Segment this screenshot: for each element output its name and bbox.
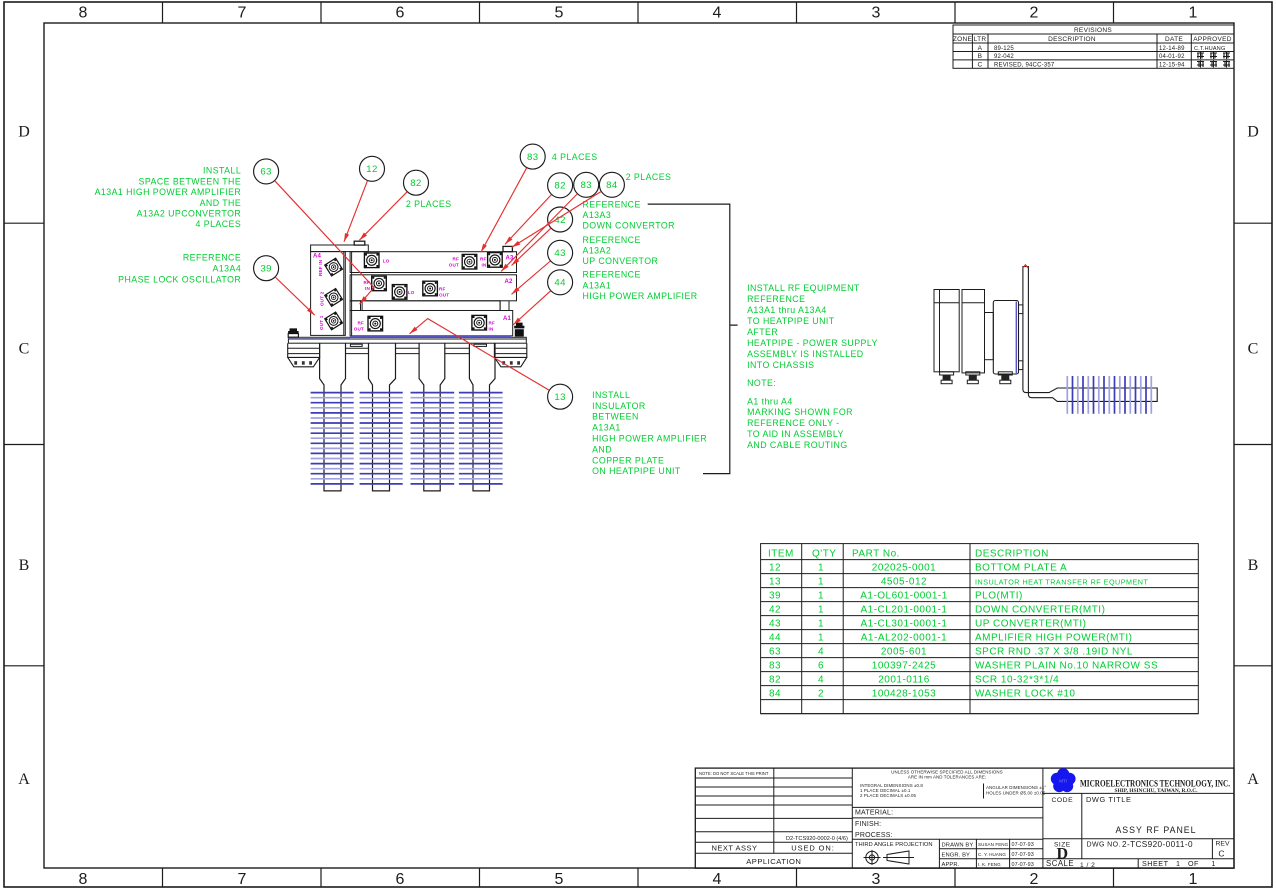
svg-text:43: 43	[554, 248, 565, 259]
green notes right of balloons	[406, 152, 878, 476]
svg-text:100397-2425: 100397-2425	[872, 660, 936, 671]
svg-text:A1-OL601-0001-1: A1-OL601-0001-1	[860, 590, 948, 601]
svg-text:82: 82	[554, 181, 565, 192]
svg-text:D2-TCS920-0002-0 (4/6): D2-TCS920-0002-0 (4/6)	[786, 836, 848, 842]
svg-text:A13A1 thru A13A4: A13A1 thru A13A4	[747, 305, 827, 315]
svg-text:C: C	[1218, 849, 1224, 859]
svg-text:82: 82	[410, 178, 421, 189]
svg-text:ITEM: ITEM	[768, 548, 794, 559]
title block left section text	[699, 771, 848, 866]
svg-text:INSTALL: INSTALL	[592, 390, 630, 400]
svg-text:C.T.HUANG: C.T.HUANG	[1194, 46, 1225, 52]
svg-text:A: A	[18, 771, 30, 788]
svg-text:MARKING SHOWN FOR: MARKING SHOWN FOR	[747, 407, 853, 417]
parts list table text	[768, 548, 1158, 699]
svg-text:1: 1	[1189, 5, 1198, 22]
svg-text:2 PLACES: 2 PLACES	[406, 199, 452, 209]
svg-text:1 / 2: 1 / 2	[1080, 862, 1095, 869]
parts list table frame	[761, 544, 1199, 714]
svg-text:APPROVED: APPROVED	[1193, 36, 1232, 43]
svg-text:A: A	[1247, 771, 1259, 788]
module A4 top lip plate	[311, 245, 369, 252]
svg-text:12-15-94: 12-15-94	[1159, 63, 1185, 69]
RF IN connector A1	[472, 315, 487, 330]
svg-text:WASHER PLAIN No.10 NARROW SS: WASHER PLAIN No.10 NARROW SS	[975, 660, 1158, 671]
svg-text:INSTALL: INSTALL	[203, 166, 241, 176]
screw tab on lip	[354, 241, 365, 245]
balloon 13	[548, 384, 573, 409]
svg-text:REFERENCE: REFERENCE	[583, 235, 641, 245]
svg-text:UP CONVERTOR: UP CONVERTOR	[583, 256, 659, 266]
revisions table frame	[953, 25, 1234, 68]
svg-text:100428-1053: 100428-1053	[872, 688, 936, 699]
RF OUT connector A2	[423, 281, 438, 296]
right mounting bracket	[494, 343, 526, 367]
svg-text:ARE IN mm AND TOLERANCES ARE:: ARE IN mm AND TOLERANCES ARE:	[908, 775, 986, 780]
svg-text:ASSY RF PANEL: ASSY RF PANEL	[1115, 825, 1196, 835]
svg-text:HOLES UNDER Ø5.00 ±0.05: HOLES UNDER Ø5.00 ±0.05	[986, 790, 1046, 795]
RF OUT connector A3	[462, 254, 477, 269]
svg-text:A13A1 HIGH POWER AMPLIFIER: A13A1 HIGH POWER AMPLIFIER	[95, 187, 242, 197]
leader line 44	[513, 291, 551, 325]
svg-text:6: 6	[818, 660, 824, 671]
svg-text:2 PLACE DECIMALS ±0.05: 2 PLACE DECIMALS ±0.05	[860, 793, 917, 798]
svg-text:5: 5	[555, 871, 564, 888]
balloon 82	[404, 170, 429, 195]
svg-text:SCR 10-32*3*1/4: SCR 10-32*3*1/4	[975, 674, 1059, 685]
svg-text:63: 63	[769, 646, 781, 657]
svg-text:12: 12	[769, 562, 781, 573]
blue line under base plate left part	[288, 337, 350, 339]
svg-text:IN: IN	[482, 262, 487, 267]
svg-text:REV: REV	[1216, 841, 1230, 848]
title block outline	[695, 768, 1234, 868]
leader line 63	[275, 181, 374, 304]
OUT 1 connector A4	[325, 312, 343, 330]
tolerance note text	[860, 769, 1046, 798]
balloon 82	[548, 173, 573, 198]
leader line 84 row	[512, 192, 601, 248]
balloon 63	[254, 159, 279, 184]
magenta labels	[313, 254, 514, 332]
svg-text:RF: RF	[480, 256, 487, 261]
svg-text:A4: A4	[313, 254, 322, 260]
material finish process labels	[855, 810, 893, 840]
svg-text:44: 44	[554, 278, 566, 289]
svg-text:A13A3: A13A3	[583, 210, 612, 220]
svg-text:4: 4	[713, 871, 722, 888]
screw tab top right of A3	[503, 246, 512, 251]
blue line inside box 3	[1015, 302, 1017, 374]
svg-text:202025-0001: 202025-0001	[872, 562, 936, 573]
svg-text:1: 1	[818, 618, 824, 629]
svg-text:84: 84	[769, 688, 781, 699]
svg-text:89-125: 89-125	[994, 46, 1014, 52]
svg-text:THIRD ANGLE PROJECTION: THIRD ANGLE PROJECTION	[855, 842, 933, 848]
svg-text:A1: A1	[503, 316, 512, 322]
svg-text:PROCESS:: PROCESS:	[855, 832, 893, 839]
leader line 82 row	[505, 195, 551, 245]
svg-text:OUT: OUT	[354, 326, 364, 331]
balloon 83	[574, 172, 599, 197]
svg-text:D: D	[18, 124, 30, 141]
svg-text:7: 7	[238, 5, 247, 22]
svg-text:SPACE BETWEEN THE: SPACE BETWEEN THE	[139, 176, 242, 186]
svg-text:07-07-93: 07-07-93	[1012, 852, 1034, 858]
module A3 down converter box	[350, 252, 516, 273]
small tab under plate	[350, 344, 362, 346]
svg-text:ENGR. BY: ENGR. BY	[942, 852, 971, 858]
svg-text:B: B	[978, 53, 983, 60]
svg-text:REFERENCE: REFERENCE	[747, 294, 805, 304]
svg-text:IN: IN	[365, 286, 370, 291]
svg-text:A3: A3	[506, 256, 515, 262]
svg-text:44: 44	[769, 632, 781, 643]
svg-text:C: C	[19, 340, 30, 357]
svg-text:TO HEATPIPE UNIT: TO HEATPIPE UNIT	[747, 316, 835, 326]
svg-text:B: B	[19, 557, 30, 574]
svg-text:13: 13	[769, 576, 781, 587]
svg-text:I. K. FENG: I. K. FENG	[978, 862, 1001, 867]
svg-text:4 PLACES: 4 PLACES	[196, 219, 242, 229]
svg-text:FINISH:: FINISH:	[855, 821, 881, 828]
svg-text:43: 43	[769, 618, 781, 629]
LO connector A3	[364, 253, 379, 268]
svg-text:AND THE: AND THE	[200, 198, 242, 208]
svg-text:4: 4	[818, 674, 824, 685]
svg-text:BETWEEN: BETWEEN	[592, 412, 639, 422]
svg-text:RF: RF	[439, 287, 446, 292]
drawn by table text	[942, 842, 1034, 868]
svg-text:UNLESS OTHERWISE SPECIFIED ALL: UNLESS OTHERWISE SPECIFIED ALL DIMENSION…	[891, 769, 1002, 774]
install space note	[95, 166, 242, 285]
rail lines between posts	[346, 347, 369, 349]
svg-text:APPLICATION: APPLICATION	[746, 857, 801, 866]
svg-text:8: 8	[79, 5, 88, 22]
svg-text:3: 3	[872, 871, 881, 888]
svg-text:MATERIAL:: MATERIAL:	[855, 810, 893, 817]
balloon 43	[548, 240, 573, 265]
svg-text:2001-0116: 2001-0116	[878, 674, 930, 685]
svg-text:SUSAN FENG: SUSAN FENG	[978, 842, 1009, 847]
svg-text:OUT 2: OUT 2	[320, 291, 325, 306]
svg-text:AFTER: AFTER	[747, 327, 778, 337]
svg-text:13: 13	[554, 392, 565, 403]
LO connector A2	[392, 285, 407, 300]
leader line 13	[410, 319, 550, 391]
RF IN connector A2	[372, 276, 387, 291]
svg-text:DOWN CONVERTER(MTI): DOWN CONVERTER(MTI)	[975, 604, 1105, 615]
svg-text:82: 82	[769, 674, 781, 685]
RF IN connector A3	[488, 253, 503, 268]
svg-text:1: 1	[818, 632, 824, 643]
svg-text:7: 7	[238, 871, 247, 888]
svg-text:LTR: LTR	[974, 36, 987, 43]
svg-text:ASSEMBLY IS INSTALLED: ASSEMBLY IS INSTALLED	[747, 349, 864, 359]
red mark at plate top	[1023, 265, 1029, 269]
svg-text:92-042: 92-042	[994, 54, 1014, 60]
svg-text:2005-601: 2005-601	[881, 646, 927, 657]
svg-text:DESCRIPTION: DESCRIPTION	[975, 548, 1049, 559]
svg-text:COPPER PLATE: COPPER PLATE	[592, 455, 664, 465]
svg-text:AMPLIFIER HIGH POWER(MTI): AMPLIFIER HIGH POWER(MTI)	[975, 632, 1133, 643]
svg-text:DESCRIPTION: DESCRIPTION	[1048, 36, 1096, 43]
svg-text:REFERENCE ONLY -: REFERENCE ONLY -	[747, 418, 839, 428]
svg-text:SHEET 1 OF 1: SHEET 1 OF 1	[1142, 859, 1216, 868]
svg-text:2-TCS920-0011-0: 2-TCS920-0011-0	[1122, 840, 1193, 849]
svg-text:83: 83	[580, 180, 591, 191]
side view module box 2	[962, 290, 985, 373]
left mounting bracket	[288, 343, 320, 367]
svg-text:PHASE LOCK OSCILLATOR: PHASE LOCK OSCILLATOR	[118, 274, 241, 284]
blue insulator line under A1	[350, 336, 511, 338]
black bracket polyline	[648, 204, 738, 474]
svg-text:LO: LO	[383, 259, 390, 264]
svg-text:A: A	[978, 45, 983, 52]
svg-text:12-14-89: 12-14-89	[1159, 46, 1185, 52]
svg-text:REF IN: REF IN	[318, 259, 323, 276]
svg-text:4505-012: 4505-012	[881, 576, 927, 587]
heatsink fins front view	[311, 393, 503, 484]
leader line 82 upper	[359, 192, 407, 240]
module A1 high power amplifier box	[350, 311, 513, 336]
svg-text:2: 2	[1030, 5, 1039, 22]
OUT 2 connector A4	[325, 289, 343, 307]
svg-text:A1-AL202-0001-1: A1-AL202-0001-1	[861, 632, 947, 643]
svg-text:A1-CL201-0001-1: A1-CL201-0001-1	[861, 604, 948, 615]
svg-text:04-01-92: 04-01-92	[1159, 54, 1185, 60]
balloon 44	[548, 270, 573, 295]
svg-text:MTI: MTI	[1059, 779, 1067, 784]
svg-text:C. Y. HUANG: C. Y. HUANG	[978, 852, 1006, 857]
svg-text:4: 4	[818, 646, 824, 657]
svg-text:A13A1: A13A1	[592, 423, 621, 433]
svg-text:NEXT ASSY: NEXT ASSY	[711, 843, 757, 852]
svg-text:5: 5	[555, 5, 564, 22]
svg-text:REVISIONS: REVISIONS	[1074, 27, 1112, 34]
base plate of heatpipe unit	[288, 337, 526, 343]
svg-text:REFERENCE: REFERENCE	[583, 270, 641, 280]
svg-text:2 PLACES: 2 PLACES	[626, 172, 672, 182]
svg-text:DOWN CONVERTOR: DOWN CONVERTOR	[583, 221, 675, 231]
heatsink fins side view	[1067, 376, 1151, 414]
balloon 83	[520, 144, 545, 169]
svg-text:INTO CHASSIS: INTO CHASSIS	[747, 360, 814, 370]
svg-text:CODE: CODE	[1051, 797, 1073, 804]
svg-text:RF: RF	[489, 320, 496, 325]
svg-text:HIGH POWER AMPLIFIER: HIGH POWER AMPLIFIER	[583, 291, 698, 301]
leader line 43	[512, 261, 551, 294]
svg-text:4 PLACES: 4 PLACES	[552, 152, 598, 162]
RF OUT connector A1	[368, 316, 383, 331]
svg-text:2: 2	[1030, 871, 1039, 888]
leader line 12	[344, 181, 368, 242]
svg-text:83: 83	[769, 660, 781, 671]
svg-text:A13A4: A13A4	[213, 264, 242, 274]
svg-text:NOTE: DO NOT SCALE THIS PRINT: NOTE: DO NOT SCALE THIS PRINT	[699, 771, 769, 776]
svg-text:INSULATOR HEAT TRANSFER RF EQU: INSULATOR HEAT TRANSFER RF EQUPMENT	[975, 577, 1148, 586]
side view mounting tabs	[1019, 305, 1023, 314]
svg-text:WASHER LOCK #10: WASHER LOCK #10	[975, 688, 1076, 699]
heatpipe post 3	[419, 343, 445, 491]
balloon 12	[360, 156, 385, 181]
revision B signature	[1197, 52, 1230, 68]
svg-text:IN: IN	[489, 326, 494, 331]
side view module box 1	[934, 267, 1157, 402]
heatpipe plate side profile	[1023, 267, 1157, 402]
svg-text:ON HEATPIPE UNIT: ON HEATPIPE UNIT	[592, 466, 681, 476]
svg-text:MICROELECTRONICS TECHNOLOGY, I: MICROELECTRONICS TECHNOLOGY, INC.	[1080, 778, 1230, 788]
svg-text:DATE: DATE	[1165, 36, 1183, 43]
svg-text:8: 8	[79, 871, 88, 888]
svg-text:4: 4	[713, 5, 722, 22]
svg-text:6: 6	[396, 871, 405, 888]
svg-text:APPR.: APPR.	[942, 862, 960, 868]
svg-text:SPCR RND .37 X 3/8 .19ID NYL: SPCR RND .37 X 3/8 .19ID NYL	[975, 646, 1133, 657]
svg-text:ZONE: ZONE	[953, 36, 973, 43]
svg-text:REVISED, 94CC-357: REVISED, 94CC-357	[994, 63, 1055, 69]
heatpipe post 1	[320, 343, 346, 491]
svg-text:B: B	[1248, 557, 1259, 574]
svg-text:A13A1: A13A1	[583, 280, 612, 290]
leader line 42	[512, 228, 551, 265]
svg-text:A13A2: A13A2	[583, 246, 612, 256]
svg-text:HIGH POWER AMPLIFIER: HIGH POWER AMPLIFIER	[592, 434, 707, 444]
svg-text:07-07-93: 07-07-93	[1012, 842, 1034, 848]
side view interconnect	[985, 313, 994, 360]
svg-text:USED ON:: USED ON:	[791, 843, 834, 852]
svg-text:D: D	[1247, 124, 1259, 141]
left bracket bolt	[288, 328, 299, 333]
svg-text:6: 6	[396, 5, 405, 22]
svg-text:SHIP, HSINCHU, TAIWAN, R.O.C.: SHIP, HSINCHU, TAIWAN, R.O.C.	[1114, 788, 1198, 794]
svg-text:C: C	[978, 62, 983, 69]
svg-text:PART No.: PART No.	[852, 548, 900, 559]
spacer bar between A2 and A1	[350, 301, 500, 311]
small tab under plate right	[474, 344, 487, 346]
svg-text:39: 39	[260, 264, 271, 275]
svg-text:BOTTOM PLATE A: BOTTOM PLATE A	[975, 562, 1067, 573]
svg-text:SCALE: SCALE	[1046, 859, 1074, 868]
leader line 83 row	[501, 194, 577, 272]
svg-text:63: 63	[260, 167, 271, 178]
svg-text:42: 42	[769, 604, 781, 615]
svg-text:3: 3	[872, 5, 881, 22]
leader line 39	[275, 277, 315, 315]
svg-text:NOTE:: NOTE:	[747, 378, 776, 388]
side view module box 3	[993, 301, 1018, 375]
svg-text:1: 1	[1189, 871, 1198, 888]
svg-text:07-07-93: 07-07-93	[1012, 862, 1034, 868]
svg-text:HEATPIPE - POWER SUPPLY: HEATPIPE - POWER SUPPLY	[747, 338, 878, 348]
balloon 42	[548, 207, 573, 232]
svg-text:LO: LO	[408, 290, 415, 295]
svg-text:1: 1	[818, 604, 824, 615]
svg-text:OUT: OUT	[439, 293, 449, 298]
svg-text:REFERENCE: REFERENCE	[583, 199, 641, 209]
svg-text:OUT: OUT	[449, 262, 459, 267]
svg-text:1: 1	[818, 576, 824, 587]
svg-text:12: 12	[366, 164, 377, 175]
svg-text:1: 1	[818, 562, 824, 573]
right bracket bolt	[514, 323, 524, 329]
REF IN connector A4	[325, 258, 343, 276]
balloon 84	[599, 172, 624, 197]
svg-text:RF: RF	[357, 320, 364, 325]
svg-text:INSTALL RF EQUIPMENT: INSTALL RF EQUIPMENT	[747, 283, 860, 293]
svg-text:PLO(MTI): PLO(MTI)	[975, 590, 1023, 601]
heatpipe post 4	[469, 343, 495, 491]
svg-text:OUT 1: OUT 1	[319, 315, 324, 330]
svg-text:C: C	[1248, 340, 1259, 357]
svg-text:A13A2 UPCONVERTOR: A13A2 UPCONVERTOR	[137, 209, 242, 219]
svg-text:DWG TITLE: DWG TITLE	[1086, 795, 1132, 804]
svg-text:AND: AND	[592, 444, 612, 454]
revisions table text	[953, 27, 1232, 69]
svg-text:TO AID IN ASSEMBLY: TO AID IN ASSEMBLY	[747, 429, 844, 439]
side view studs under boxes	[940, 372, 954, 384]
balloon 39	[254, 256, 279, 281]
svg-text:83: 83	[527, 152, 538, 163]
module A4 phase lock oscillator box	[311, 252, 346, 336]
svg-text:84: 84	[606, 180, 618, 191]
module A2 up converter box	[350, 275, 516, 301]
svg-text:DRAWN BY: DRAWN BY	[942, 842, 974, 848]
svg-text:REFERENCE: REFERENCE	[183, 253, 241, 263]
svg-text:A1-CL301-0001-1: A1-CL301-0001-1	[861, 618, 948, 629]
svg-text:39: 39	[769, 590, 781, 601]
MTI logo	[1051, 768, 1076, 792]
svg-text:AND CABLE ROUTING: AND CABLE ROUTING	[747, 440, 848, 450]
heatpipe post 2	[369, 343, 396, 491]
svg-text:DWG NO.: DWG NO.	[1087, 842, 1121, 849]
svg-text:Q'TY: Q'TY	[812, 548, 836, 559]
revision C signature	[1197, 61, 1204, 68]
svg-text:A2: A2	[505, 279, 514, 285]
svg-text:RF: RF	[452, 256, 459, 261]
svg-text:INSULATOR: INSULATOR	[592, 401, 646, 411]
leader line 83 top	[481, 168, 527, 253]
svg-text:A1 thru A4: A1 thru A4	[747, 396, 793, 406]
svg-text:UP CONVERTER(MTI): UP CONVERTER(MTI)	[975, 618, 1086, 629]
svg-text:2: 2	[818, 688, 824, 699]
svg-text:1: 1	[818, 590, 824, 601]
